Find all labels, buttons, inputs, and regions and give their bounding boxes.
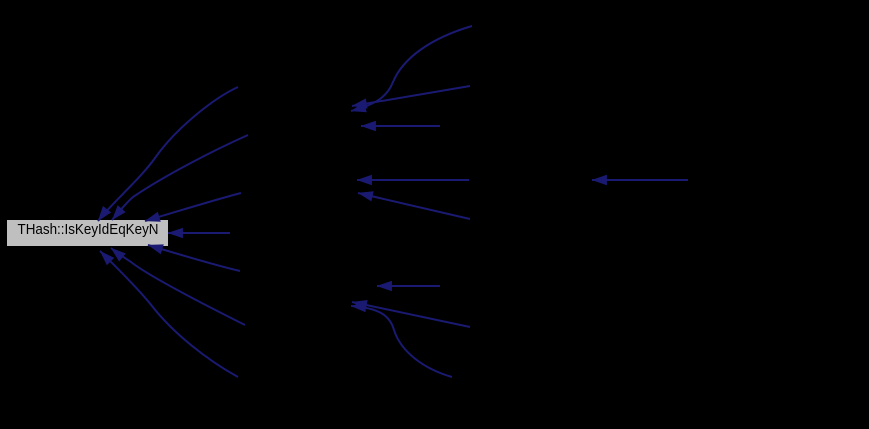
edge M8 (s-curve from bottom right) (351, 306, 452, 377)
edge M6 (short horizontal lower) (377, 285, 440, 287)
svg-text:THash::IsKeyIdEqKeyN: THash::IsKeyIdEqKeyN (18, 221, 159, 238)
edge L5 (148, 245, 240, 271)
edge L7 (bottom outer curve into node box) (100, 251, 238, 377)
edge M7 (352, 302, 470, 327)
edge L4 (horizontal into node box) (168, 232, 230, 234)
edge M5 (358, 193, 470, 219)
edge L2 (112, 135, 248, 220)
edge M3 (short horizontal) (361, 125, 440, 127)
node THash::IsKeyIdEqKeyN (highlighted gray box) (7, 220, 168, 246)
edge M1 (s-curve from top right) (351, 26, 472, 111)
edge M2 (352, 86, 470, 106)
edge M4 (horizontal mid) (357, 179, 469, 181)
edge R1 (far right horizontal) (592, 179, 688, 181)
edge L1 (top outer curve into node box) (98, 87, 238, 221)
edge L6 (111, 248, 245, 325)
edge L3 (145, 193, 241, 221)
